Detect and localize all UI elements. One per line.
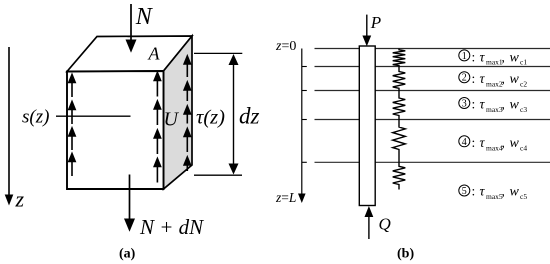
cube front face	[67, 71, 164, 189]
soil layer line 4	[315, 119, 550, 121]
svg-text:2: 2	[462, 73, 467, 84]
svg-text:1: 1	[462, 51, 467, 62]
svg-text:P: P	[370, 13, 381, 32]
soil layer line 1	[315, 48, 550, 50]
layer label 2	[459, 71, 528, 88]
svg-text:5: 5	[462, 186, 467, 197]
svg-text:s(z): s(z)	[22, 107, 49, 128]
soil layer line 3	[315, 90, 550, 92]
svg-text:τ(z): τ(z)	[196, 107, 225, 129]
svg-text:N: N	[135, 4, 154, 30]
layer label 5	[459, 184, 528, 201]
svg-text:U: U	[164, 109, 180, 131]
spring S4	[393, 120, 406, 162]
svg-text::: :	[472, 71, 476, 86]
layer label 3	[459, 97, 528, 114]
svg-text:A: A	[148, 44, 161, 64]
svg-text:w: w	[510, 185, 520, 200]
spring S5	[393, 162, 406, 189]
svg-text:,: ,	[502, 97, 505, 112]
svg-text:w: w	[510, 98, 520, 113]
svg-text:c1: c1	[520, 58, 527, 67]
svg-text:max2: max2	[486, 79, 503, 88]
Q arrow	[365, 206, 374, 239]
svg-text:c4: c4	[520, 143, 527, 152]
layer label 4	[459, 135, 528, 152]
dz dimension line	[229, 54, 239, 175]
spring S3	[393, 91, 406, 121]
dz bottom extension line	[194, 174, 242, 176]
axis tick layer 4	[302, 119, 307, 121]
svg-text:z=0: z=0	[275, 39, 296, 54]
soil layer line 2	[315, 66, 550, 68]
svg-text:3: 3	[462, 99, 467, 110]
layer label 1	[459, 49, 528, 66]
svg-text:,: ,	[502, 184, 505, 199]
z-axis (a)	[5, 47, 14, 206]
svg-text:,: ,	[502, 49, 505, 64]
svg-text:max3: max3	[486, 105, 503, 114]
N+dN arrow	[124, 175, 135, 232]
N arrow	[126, 4, 137, 53]
shear arrows side-face column	[184, 56, 190, 171]
pile	[359, 46, 375, 206]
svg-text:max5: max5	[486, 192, 503, 201]
svg-text:(b): (b)	[397, 247, 414, 262]
svg-text:z: z	[15, 187, 25, 212]
axis tick layer 2	[302, 66, 307, 68]
svg-text:c2: c2	[520, 79, 527, 88]
svg-text:max4: max4	[486, 143, 503, 152]
svg-text:w: w	[510, 72, 520, 87]
svg-text:z=L: z=L	[275, 190, 296, 205]
s(z) leader line	[56, 115, 131, 117]
svg-text::: :	[472, 184, 476, 199]
shear arrows front-right column	[154, 73, 160, 183]
z-axis (b)	[298, 49, 306, 204]
svg-text:N + dN: N + dN	[139, 215, 204, 239]
svg-text::: :	[472, 97, 476, 112]
spring S1	[393, 49, 406, 67]
dz top extension line	[194, 52, 242, 54]
svg-text:Q: Q	[379, 215, 391, 234]
spring S2	[393, 67, 406, 91]
P arrow	[362, 15, 371, 47]
svg-text:(a): (a)	[119, 247, 136, 262]
svg-text:max1: max1	[486, 58, 503, 67]
svg-text:c3: c3	[520, 105, 527, 114]
cube right face	[164, 36, 193, 189]
svg-text::: :	[472, 49, 476, 64]
cube top face	[67, 36, 192, 72]
svg-text:,: ,	[502, 71, 505, 86]
shear arrows front-left column	[69, 75, 75, 177]
svg-text::: :	[472, 135, 476, 150]
svg-text:dz: dz	[239, 104, 260, 129]
svg-text:,: ,	[502, 135, 505, 150]
svg-text:c5: c5	[520, 192, 527, 201]
axis tick layer 5	[302, 161, 307, 163]
axis tick layer 3	[302, 90, 307, 92]
svg-text:4: 4	[462, 137, 467, 148]
svg-text:w: w	[510, 50, 520, 65]
soil layer line 5	[315, 161, 550, 163]
svg-text:w: w	[510, 136, 520, 151]
